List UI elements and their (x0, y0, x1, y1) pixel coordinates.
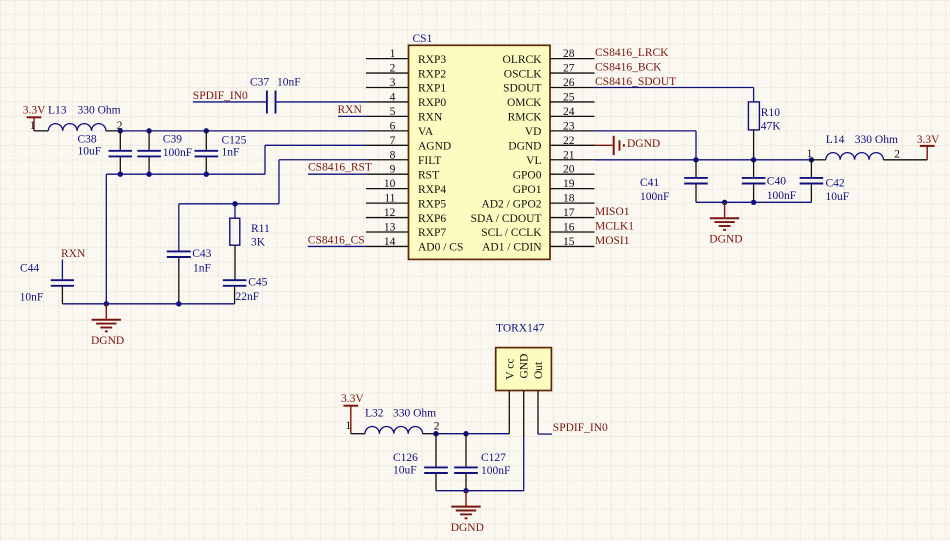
svg-text:V cc: V cc (504, 359, 516, 380)
svg-text:SDA / CDOUT: SDA / CDOUT (471, 213, 542, 225)
wire SPDIF_IN0 to C37 (193, 101, 266, 103)
svg-text:DGND: DGND (508, 141, 541, 153)
L32 labels (365, 407, 436, 419)
svg-text:26: 26 (563, 77, 575, 89)
svg-text:100nF: 100nF (163, 147, 192, 159)
junction at C125 top (204, 128, 209, 133)
svg-text:C40: C40 (767, 175, 786, 187)
capacitor C43 1nF (167, 248, 212, 304)
power 3.3V (bottom) (341, 393, 364, 434)
svg-text:RXP2: RXP2 (418, 68, 446, 80)
wire L32 pin2 to junction (423, 433, 436, 435)
svg-text:CS1: CS1 (413, 33, 433, 45)
svg-text:DGND: DGND (451, 522, 484, 534)
svg-text:27: 27 (563, 63, 575, 75)
pin 7 AGND (366, 135, 451, 153)
svg-text:RXN: RXN (418, 112, 443, 124)
svg-text:100nF: 100nF (767, 190, 796, 202)
capacitor C38 10uF (78, 131, 133, 174)
junction L14/C42 (809, 157, 814, 162)
inductor L32 330 Ohm (365, 427, 423, 434)
svg-text:DGND: DGND (91, 335, 124, 347)
svg-text:25: 25 (563, 91, 575, 103)
capacitor C37 10nF (250, 77, 301, 114)
svg-text:28: 28 (563, 48, 575, 60)
svg-text:L32: L32 (365, 407, 384, 419)
svg-text:SCL / CCLK: SCL / CCLK (481, 227, 542, 239)
svg-text:TORX147: TORX147 (496, 322, 545, 334)
junction C41 (693, 157, 698, 162)
svg-text:20: 20 (563, 164, 575, 176)
wire Out to SPDIF_IN0 (538, 433, 552, 435)
svg-text:C126: C126 (393, 452, 418, 464)
pin 26 SDOUT (503, 77, 594, 95)
L14 labels (826, 134, 898, 146)
wire RXN to pin5 (338, 115, 366, 117)
pin Vcc of TORX147 (504, 359, 516, 434)
wire FILT pin8 (279, 159, 366, 161)
capacitor C41 100nF (640, 160, 708, 203)
svg-text:AD0 / CS: AD0 / CS (418, 242, 463, 254)
resistor R11 3K (230, 204, 270, 280)
wire C37 to pin4 (276, 101, 366, 103)
svg-text:10uF: 10uF (78, 146, 102, 158)
junction C38 bottom (118, 172, 123, 177)
pin 17 SDA / CDOUT (471, 207, 595, 225)
pin 1 RXP3 (366, 48, 446, 66)
resistor R10 47K (748, 102, 781, 160)
wire L14 to power (883, 159, 927, 161)
svg-text:7: 7 (390, 135, 396, 147)
svg-text:RXN: RXN (61, 248, 86, 260)
wire RST pin9 (308, 173, 366, 175)
svg-text:9: 9 (390, 164, 396, 176)
pin 15 AD1 / CDIN (482, 236, 594, 254)
pin 19 GPO1 (513, 178, 595, 196)
power 3.3V (left) (23, 105, 46, 131)
junction R10/C40 (751, 157, 756, 162)
svg-text:SPDIF_IN0: SPDIF_IN0 (553, 422, 608, 434)
pin 23 VD (525, 120, 595, 138)
inductor L14 330 Ohm (826, 153, 884, 160)
wire VL rail (595, 159, 812, 161)
junction DGND stub (104, 301, 109, 306)
svg-text:100nF: 100nF (640, 191, 669, 203)
svg-text:RXP5: RXP5 (418, 198, 446, 210)
svg-text:VA: VA (418, 126, 434, 138)
capacitor C125 1nF (195, 131, 247, 174)
svg-text:1: 1 (346, 420, 352, 432)
pin 18 AD2 / GPO2 (481, 193, 594, 211)
capacitor C44 10nF (20, 260, 74, 304)
svg-text:10uF: 10uF (826, 191, 850, 203)
svg-text:SPDIF_IN0: SPDIF_IN0 (193, 90, 248, 102)
svg-text:5: 5 (390, 106, 396, 118)
svg-text:DGND: DGND (627, 138, 660, 150)
svg-text:RST: RST (418, 169, 439, 181)
svg-text:RXP6: RXP6 (418, 213, 446, 225)
svg-text:10nF: 10nF (277, 77, 301, 89)
junction C126 (433, 431, 438, 436)
svg-text:OSCLK: OSCLK (504, 68, 542, 80)
pin GND of TORX147 (519, 354, 531, 437)
svg-text:RXP1: RXP1 (418, 83, 446, 95)
junction C40 bottom (751, 200, 756, 205)
junction C39 bottom (146, 172, 151, 177)
L13 labels (48, 105, 121, 117)
pin 22 DGND (508, 135, 594, 153)
svg-text:10uF: 10uF (393, 465, 417, 477)
capacitor C39 100nF (137, 131, 192, 174)
svg-text:MISO1: MISO1 (595, 206, 630, 218)
svg-text:VL: VL (526, 155, 541, 167)
pin 12 RXP6 (366, 207, 446, 225)
svg-text:2: 2 (434, 420, 440, 432)
wire lower DGND rail (696, 201, 811, 203)
svg-text:MOSI1: MOSI1 (595, 235, 630, 247)
junction DGND stub right (722, 200, 727, 205)
pin 16 SCL / CCLK (481, 222, 594, 240)
svg-text:22nF: 22nF (236, 291, 260, 303)
svg-text:C127: C127 (481, 452, 506, 464)
junction R11 top (232, 201, 237, 206)
svg-text:21: 21 (563, 149, 575, 161)
pin 27 OSCLK (504, 63, 595, 81)
wire down to DGND rail (105, 174, 107, 304)
svg-text:8: 8 (390, 149, 396, 161)
svg-text:6: 6 (390, 120, 396, 132)
junction C43 bottom (176, 301, 181, 306)
svg-text:C37: C37 (250, 77, 269, 89)
svg-text:3.3V: 3.3V (23, 105, 46, 117)
svg-text:100nF: 100nF (481, 465, 510, 477)
pin 5 RXN (366, 106, 443, 124)
svg-text:330 Ohm: 330 Ohm (855, 134, 898, 146)
pin 9 RST (366, 164, 439, 182)
capacitor C45 22nF (223, 277, 268, 304)
svg-text:VD: VD (525, 126, 542, 138)
svg-text:47K: 47K (761, 120, 782, 132)
svg-text:CS8416_SDOUT: CS8416_SDOUT (595, 76, 676, 88)
svg-text:RXP3: RXP3 (418, 54, 446, 66)
svg-text:1nF: 1nF (222, 146, 240, 158)
svg-text:L13: L13 (48, 105, 67, 117)
svg-text:18: 18 (563, 193, 575, 205)
svg-text:R11: R11 (251, 223, 270, 235)
svg-text:C125: C125 (222, 135, 247, 147)
svg-text:10nF: 10nF (20, 291, 44, 303)
IC TORX147 body (496, 322, 552, 390)
svg-text:C39: C39 (163, 133, 182, 145)
junction at L13/C38 (118, 128, 123, 133)
svg-text:22: 22 (563, 135, 575, 147)
wire AGND pin7 (265, 144, 366, 146)
pin 6 VA (366, 120, 434, 138)
svg-text:RXP7: RXP7 (418, 227, 446, 239)
svg-text:C41: C41 (640, 177, 659, 189)
svg-text:C45: C45 (248, 277, 267, 289)
svg-text:OMCK: OMCK (507, 97, 542, 109)
svg-text:24: 24 (563, 106, 575, 118)
svg-text:C43: C43 (192, 248, 211, 260)
pin 14 AD0 / CS (366, 236, 463, 254)
svg-text:23: 23 (563, 120, 575, 132)
svg-text:MCLK1: MCLK1 (595, 220, 634, 232)
junction at C39 top (146, 128, 151, 133)
svg-text:R10: R10 (761, 107, 780, 119)
wire SDOUT pin26 (595, 87, 754, 89)
pin 3 RXP1 (366, 77, 446, 95)
svg-text:4: 4 (390, 91, 396, 103)
svg-text:19: 19 (563, 178, 575, 190)
ground DGND (right) (709, 202, 742, 245)
svg-text:OLRCK: OLRCK (503, 54, 543, 66)
svg-text:3.3V: 3.3V (341, 393, 364, 405)
svg-text:RXP0: RXP0 (418, 97, 446, 109)
pin 24 RMCK (508, 106, 595, 124)
svg-text:GND: GND (519, 354, 531, 379)
svg-text:CS8416_BCK: CS8416_BCK (595, 62, 662, 74)
svg-text:RXN: RXN (338, 104, 363, 116)
wire bottom DGND rail (62, 303, 234, 305)
pin 28 OLRCK (503, 48, 595, 66)
pin Out of TORX147 (533, 361, 545, 434)
pin 25 OMCK (507, 91, 595, 109)
capacitor C40 100nF (742, 160, 796, 203)
svg-text:1nF: 1nF (193, 263, 211, 275)
svg-text:C42: C42 (826, 178, 845, 190)
pin 13 RXP7 (366, 222, 446, 240)
ground DGND (bottom) (451, 491, 484, 534)
svg-text:17: 17 (563, 207, 575, 219)
svg-text:1: 1 (30, 120, 36, 132)
wire CS pin14 (308, 245, 366, 247)
svg-text:CS8416_CS: CS8416_CS (308, 234, 365, 246)
wire L13 pin2 to junction (106, 130, 120, 132)
svg-text:C38: C38 (78, 133, 97, 145)
wire VA rail (120, 130, 366, 132)
wire Vcc rail (436, 433, 509, 435)
svg-text:10: 10 (384, 178, 396, 190)
svg-text:15: 15 (563, 236, 575, 248)
pin 10 RXP4 (366, 178, 446, 196)
svg-text:FILT: FILT (418, 155, 441, 167)
wire VD pin23 (595, 130, 697, 132)
svg-text:L14: L14 (826, 134, 845, 146)
svg-text:GPO0: GPO0 (513, 169, 542, 181)
capacitor C126 10uF (393, 434, 448, 491)
power 3.3V (right) (917, 134, 940, 160)
svg-text:16: 16 (563, 222, 575, 234)
svg-text:GPO1: GPO1 (513, 184, 542, 196)
svg-text:1: 1 (390, 48, 396, 60)
svg-text:CS8416_RST: CS8416_RST (308, 162, 372, 174)
svg-text:AD1 / CDIN: AD1 / CDIN (482, 242, 542, 254)
svg-text:14: 14 (384, 236, 396, 248)
wire power to L13 (34, 130, 48, 132)
junction DGND bottom (463, 488, 468, 493)
svg-text:AGND: AGND (418, 141, 451, 153)
svg-text:330 Ohm: 330 Ohm (78, 105, 121, 117)
junction C127 (463, 431, 468, 436)
pin 11 RXP5 (366, 193, 446, 211)
svg-text:C44: C44 (20, 262, 39, 274)
wire GND rail bottom (436, 490, 524, 492)
svg-text:11: 11 (384, 193, 395, 205)
ground DGND at pin22 (595, 136, 661, 155)
junction C125 bottom (204, 172, 209, 177)
svg-text:12: 12 (384, 207, 396, 219)
svg-text:DGND: DGND (709, 234, 742, 246)
svg-text:13: 13 (384, 222, 396, 234)
wire FILT to C43 (178, 204, 180, 252)
wire power to L32 (351, 433, 365, 435)
svg-text:AD2 / GPO2: AD2 / GPO2 (481, 198, 541, 210)
svg-text:330 Ohm: 330 Ohm (393, 408, 436, 420)
IC U1 CS8416 body CS1 (409, 33, 551, 259)
svg-text:CS8416_LRCK: CS8416_LRCK (595, 47, 669, 59)
pin 20 GPO0 (513, 164, 595, 182)
pin 21 VL (526, 149, 594, 167)
ground DGND (left) (91, 304, 124, 347)
pin 2 RXP2 (366, 63, 446, 81)
svg-text:1: 1 (807, 148, 813, 160)
svg-text:RXP4: RXP4 (418, 184, 446, 196)
svg-text:2: 2 (894, 149, 900, 161)
pin 8 FILT (366, 149, 441, 167)
capacitor C127 100nF (454, 434, 510, 491)
svg-text:Out: Out (533, 361, 545, 379)
svg-text:3K: 3K (251, 237, 266, 249)
capacitor C42 10uF (800, 160, 850, 203)
svg-text:3.3V: 3.3V (917, 134, 940, 146)
wire cap bottom rail (106, 173, 265, 175)
pin 4 RXP0 (366, 91, 446, 109)
svg-text:RMCK: RMCK (508, 112, 543, 124)
svg-text:2: 2 (390, 63, 396, 75)
svg-text:SDOUT: SDOUT (503, 83, 541, 95)
svg-text:3: 3 (390, 77, 396, 89)
wire junction to L14 (811, 159, 825, 161)
inductor L13 330 Ohm (48, 124, 106, 131)
